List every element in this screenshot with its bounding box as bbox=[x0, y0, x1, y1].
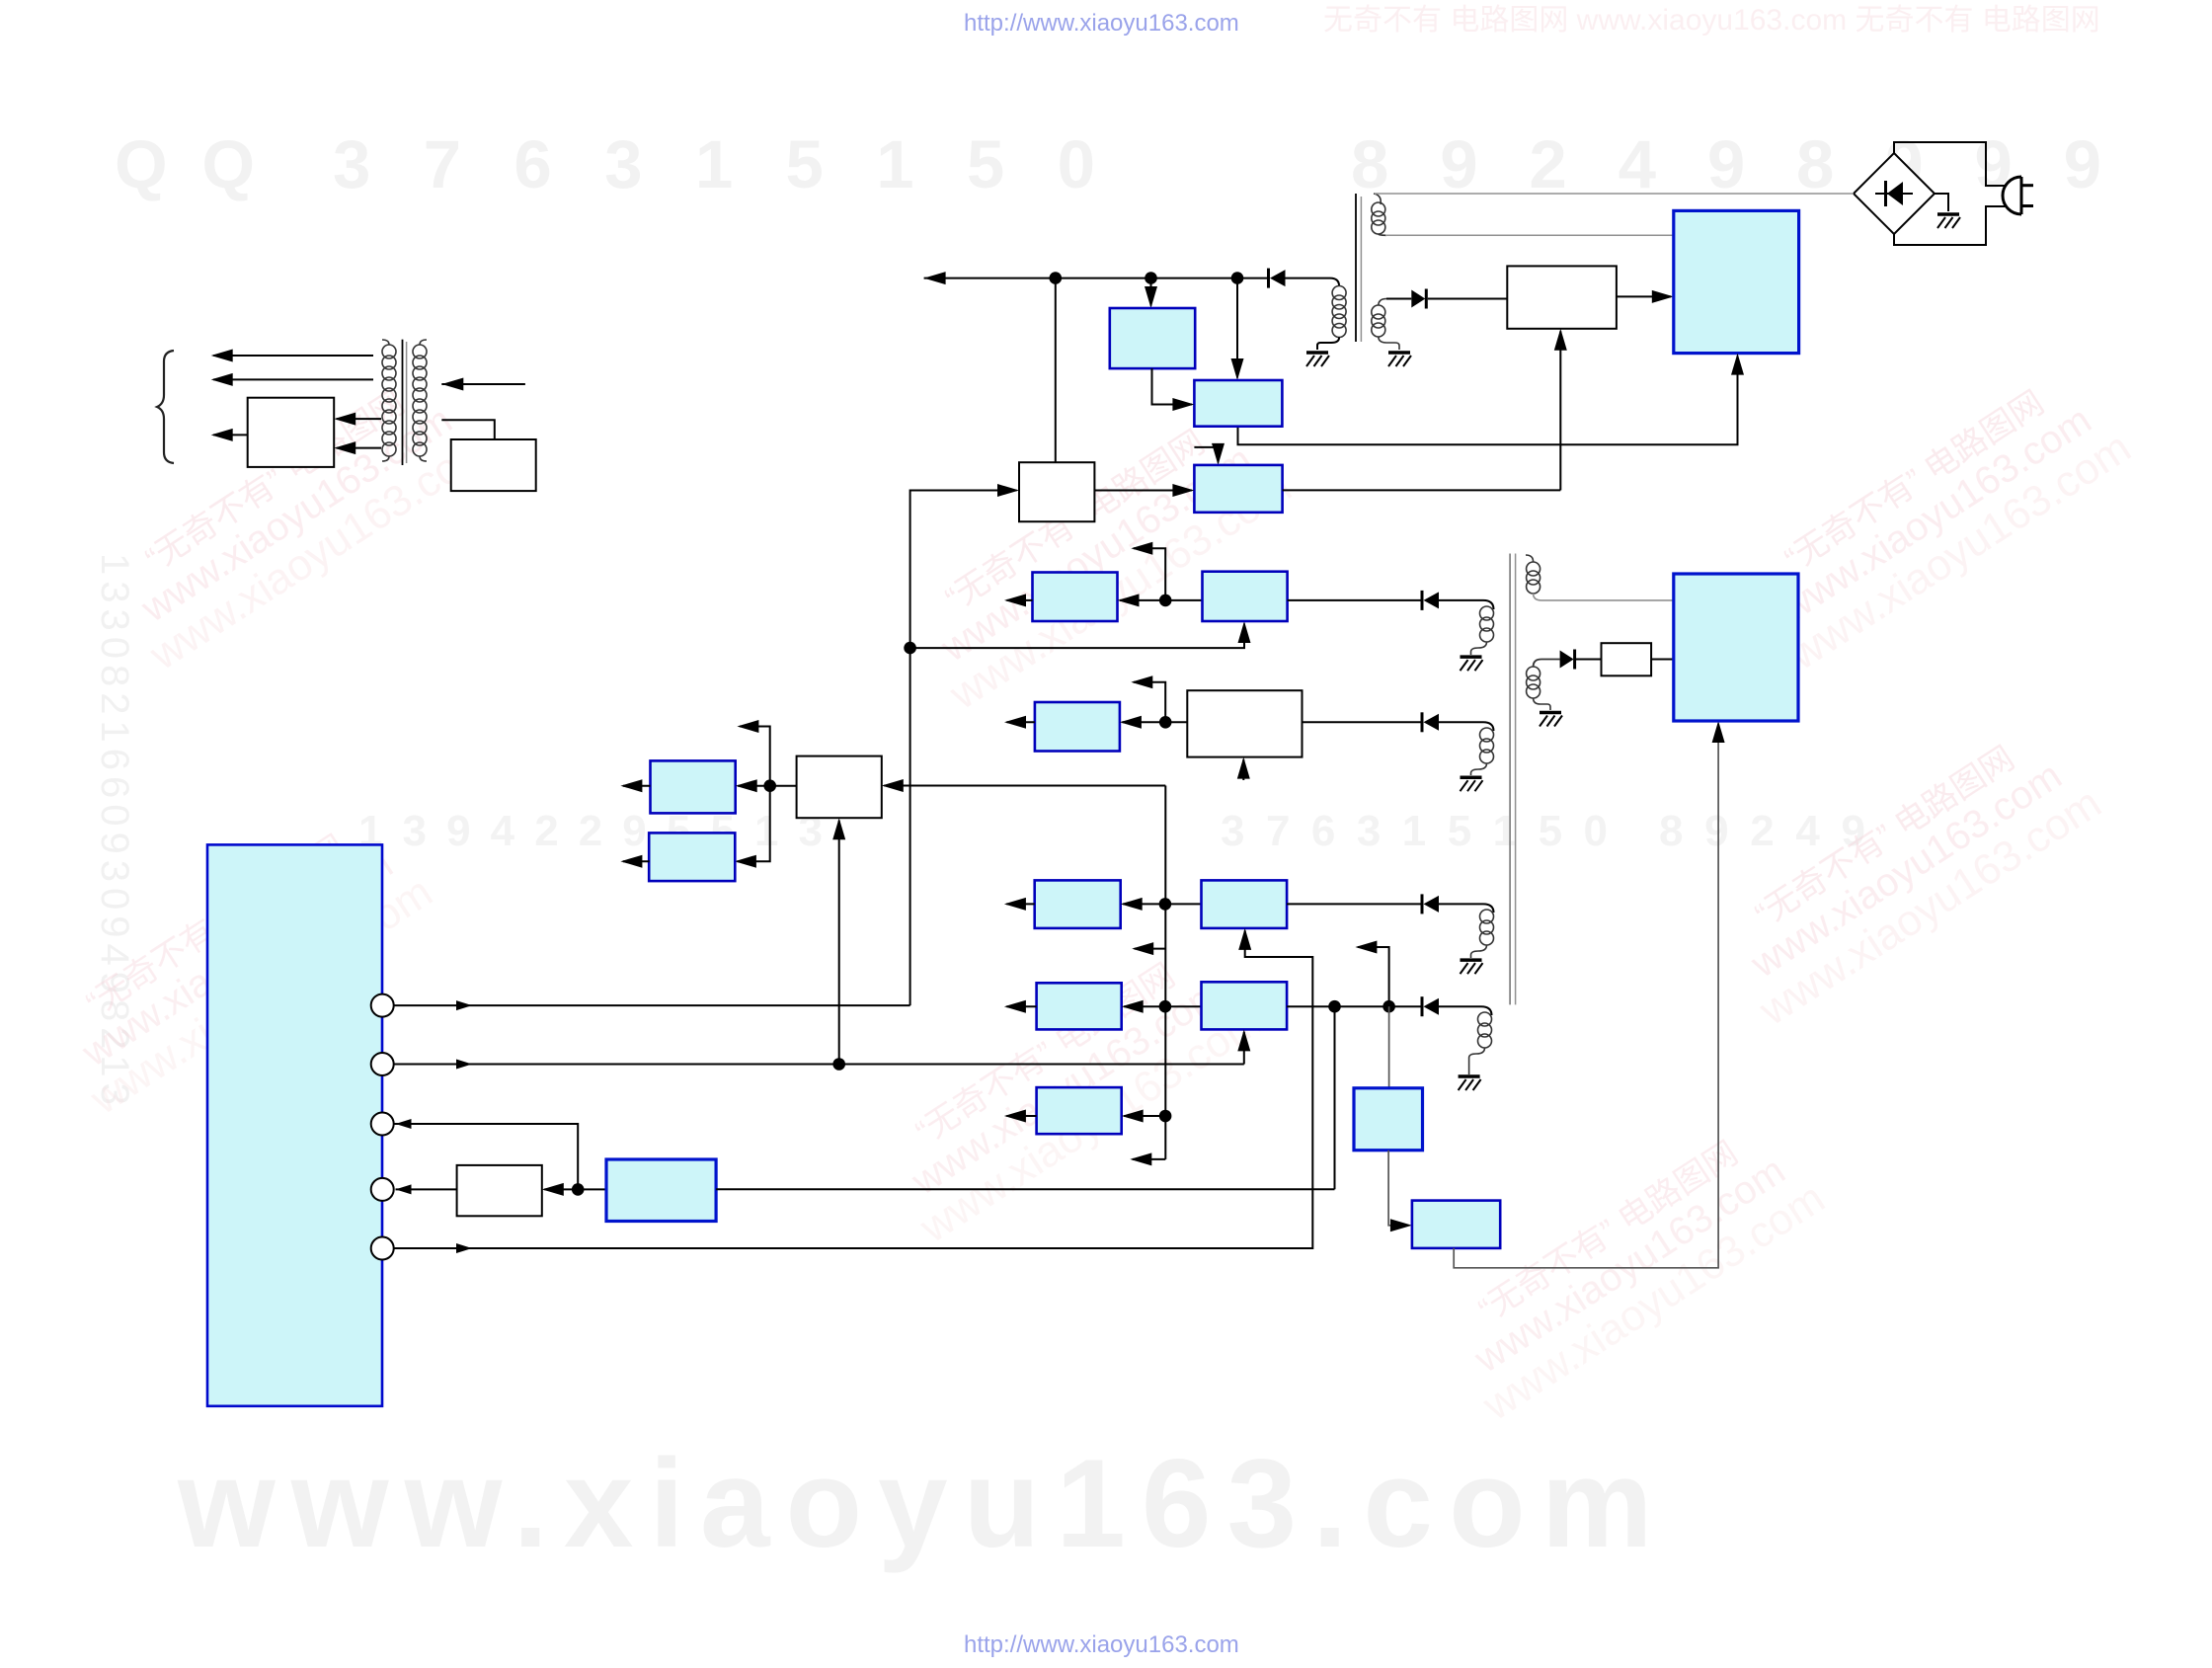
wire bridge top loop to plug bbox=[1894, 142, 2007, 186]
pin 3 circle bbox=[371, 1113, 394, 1136]
node junction row A bbox=[1159, 595, 1172, 607]
block box1 (cyan) bbox=[1110, 308, 1195, 368]
svg-text:无奇不有 电路图网 www.xiaoyu163.com 无: 无奇不有 电路图网 www.xiaoyu163.com 无奇不有 电路图网 bbox=[1323, 4, 2100, 37]
transformer T0 right winding bbox=[413, 345, 427, 456]
wire bus top to WB2 bbox=[884, 785, 1165, 787]
arrow out D1 left bbox=[1006, 1005, 1036, 1007]
diode D7 output bbox=[1560, 651, 1574, 669]
block WB1 (white) bbox=[1019, 462, 1094, 521]
arrow out WB0 left bbox=[213, 434, 248, 436]
ground bridge bbox=[1937, 214, 1960, 228]
wire box3 top feeder bbox=[1194, 447, 1218, 463]
arrow into pin3 bbox=[396, 1119, 412, 1129]
bridge rectifier BR1 diamond bbox=[1854, 153, 1935, 234]
wire T2 winding A to ground bbox=[1471, 642, 1487, 655]
wire rail diode to T1 primary bbox=[1286, 278, 1340, 286]
diode D1 on rail bbox=[1270, 270, 1286, 286]
ground T2 right bbox=[1540, 713, 1562, 727]
arrow into WB2 bottom bbox=[832, 818, 845, 839]
arrow into A2 bottom bbox=[1238, 621, 1251, 643]
bridge rectifier BR1 internal diode bbox=[1875, 181, 1913, 206]
wire T1 sec-bot top hook bbox=[1379, 299, 1386, 306]
block D2 (cyan) bbox=[1202, 982, 1288, 1029]
node junction D-branch bbox=[1382, 1000, 1395, 1013]
wire T0 to WB0 lower bbox=[337, 447, 381, 449]
wire pin2 riser to WB2 bbox=[838, 821, 840, 1065]
block B2 (white) bbox=[1187, 690, 1302, 756]
wire T1 sec-bot to diode D2 bbox=[1386, 298, 1411, 300]
transformer T1 secondary bottom winding bbox=[1372, 305, 1385, 337]
node junction pin3-pin4 bbox=[572, 1183, 585, 1196]
pin 2 circle bbox=[371, 1053, 394, 1075]
svg-text:376315150: 376315150 bbox=[1221, 807, 1608, 855]
wire A2 right to diode bbox=[1288, 599, 1422, 601]
wire rail drop to WB1 bbox=[1055, 278, 1057, 463]
node rail junction 1 bbox=[1050, 272, 1063, 284]
svg-text:www.xiaoyu163.com: www.xiaoyu163.com bbox=[177, 1433, 1669, 1573]
wire pin3 bbox=[394, 1124, 578, 1189]
wire D junction to D1 bbox=[1124, 1005, 1165, 1007]
arrow into box2 left bbox=[1172, 398, 1194, 411]
transformer T1 primary winding bbox=[1332, 286, 1346, 338]
block IC2 (cyan big, right) bbox=[1674, 574, 1798, 721]
arrow into WB2 right bbox=[882, 779, 904, 792]
arrow into T0 right bbox=[441, 378, 463, 391]
wire box3 right to U2 drop bbox=[1283, 489, 1561, 491]
arrow out B1 left bbox=[1007, 721, 1035, 723]
arrow out A1 left bbox=[1007, 599, 1033, 601]
wire A branch up-left arrow bbox=[1134, 548, 1165, 600]
diode D6 row D bbox=[1424, 998, 1440, 1015]
wire T2 winding D to ground bbox=[1469, 1048, 1485, 1074]
block F2 (cyan) bbox=[606, 1159, 716, 1222]
wire box1 bottom to box2 left bbox=[1152, 368, 1193, 404]
wire D5 to T2 winding C bbox=[1439, 904, 1494, 913]
pin 5 circle bbox=[371, 1237, 394, 1260]
arrow into box2 top bbox=[1231, 358, 1244, 380]
brace left outputs bbox=[157, 351, 174, 463]
arrow into box1 top bbox=[1145, 286, 1157, 308]
wire box2 bottom feed rail bbox=[1238, 356, 1738, 444]
arrow into D2 bottom bbox=[1237, 1029, 1250, 1051]
node junction riser bbox=[904, 642, 916, 655]
arrow into box3 top bbox=[1212, 443, 1224, 465]
ground T1 primary bbox=[1306, 353, 1329, 366]
wire A junction to A1 bbox=[1120, 599, 1165, 601]
arrow into IC2 bottom bbox=[1712, 721, 1725, 743]
wire C junction to C2 bbox=[1165, 903, 1202, 905]
wire C branch left arrow bbox=[1135, 948, 1165, 950]
wire T2 right-2 hook to diode bbox=[1534, 660, 1560, 668]
wire riser pin1 to WB1 bbox=[910, 491, 1017, 1006]
transformer T1 core bbox=[1355, 194, 1357, 342]
arrow into U2 bottom bbox=[1554, 329, 1567, 351]
arrow into WB0 lower bbox=[334, 441, 355, 454]
arrow into W3 right bbox=[542, 1183, 564, 1196]
block R1 (white small) bbox=[1602, 643, 1652, 675]
wire main rail bbox=[924, 278, 1269, 279]
block MCU (big cyan) bbox=[207, 844, 382, 1405]
wire D branch up-left arrow bbox=[1358, 947, 1389, 1006]
wire WB1 to box3 bbox=[1094, 490, 1192, 492]
node junction row D bbox=[1159, 1000, 1172, 1013]
block E1 (cyan) bbox=[1037, 1087, 1122, 1134]
wire A junction to A2 bbox=[1165, 599, 1202, 601]
arrow output 2 bbox=[213, 378, 373, 380]
wire M junction to M1 bbox=[738, 785, 770, 787]
block C2 (cyan) bbox=[1202, 880, 1288, 928]
transformer T0 right winding hooks bbox=[420, 340, 427, 345]
wire T1 sec-top hook bbox=[1374, 194, 1381, 204]
arrow into M1 right bbox=[736, 779, 757, 792]
wire F2 right input bbox=[716, 1188, 1334, 1190]
svg-text:http://www.xiaoyu163.com: http://www.xiaoyu163.com bbox=[964, 10, 1239, 37]
transformer T0 left winding bbox=[382, 345, 396, 456]
pin 1 circle bbox=[371, 994, 394, 1017]
ground T2 winding C bbox=[1461, 960, 1483, 974]
arrow out C1 left bbox=[1006, 903, 1034, 905]
wire R1 to IC2 bbox=[1651, 659, 1674, 661]
wire D2 right to diode bbox=[1287, 1005, 1422, 1007]
arrow into A1 right bbox=[1118, 594, 1140, 606]
block IC1 (cyan big, top right) bbox=[1674, 210, 1799, 353]
block B1 (cyan) bbox=[1035, 702, 1120, 752]
arrow out M1 left bbox=[623, 785, 651, 787]
ground T2 winding D bbox=[1459, 1076, 1481, 1090]
block WB2 (white) bbox=[797, 756, 882, 819]
svg-text:376315150: 376315150 bbox=[333, 126, 1095, 202]
wire T1 sec-top to bridge bbox=[1375, 193, 1854, 195]
wire D junction to D2 bbox=[1165, 1005, 1202, 1007]
wire pin1 bbox=[394, 1004, 910, 1006]
wire W3 to pin4 bbox=[396, 1188, 457, 1190]
arrow out E1 left bbox=[1006, 1115, 1036, 1117]
wire bridge to ground bbox=[1935, 194, 1948, 211]
wire pin2 bbox=[394, 1064, 1244, 1066]
block M1 (cyan) bbox=[651, 760, 736, 813]
wire T1 primary to ground bbox=[1317, 338, 1339, 351]
arrow into C2 bottom bbox=[1238, 928, 1251, 950]
wire pin2 to D2 bottom bbox=[1243, 1032, 1245, 1065]
wire junction to W3 right bbox=[544, 1188, 578, 1190]
block F (cyan) bbox=[1354, 1088, 1423, 1151]
arrow into E1 right bbox=[1122, 1110, 1144, 1123]
wire B branch up-left arrow bbox=[1134, 682, 1165, 723]
arrow into IC1 left bbox=[1652, 290, 1674, 303]
wire D2 to regulator box bbox=[1428, 298, 1508, 300]
wire B junction to B1 bbox=[1122, 721, 1165, 723]
node junction row C bbox=[1159, 898, 1172, 911]
decorative watermark pink 1 bbox=[98, 357, 500, 679]
wire U2 bottom feed bbox=[1559, 331, 1561, 490]
wire dot1 to F2 line bbox=[1334, 1006, 1336, 1189]
transformer T1 secondary top winding bbox=[1372, 202, 1385, 234]
wire D-branch down to F bbox=[1388, 1006, 1390, 1088]
ground T2 winding A bbox=[1461, 657, 1483, 671]
block WB4 (white) bbox=[451, 439, 536, 491]
wire T2 right-top hook top bbox=[1526, 555, 1534, 562]
wire G bottom to IC2 bottom bbox=[1454, 724, 1718, 1268]
wire vertical bus x1180 bbox=[1164, 786, 1166, 1159]
transformer T2 right top winding bbox=[1527, 562, 1540, 594]
arrow out M2 left bbox=[623, 860, 650, 862]
arrow into B2 bottom bbox=[1237, 757, 1250, 779]
arrow into G left bbox=[1390, 1219, 1412, 1231]
wire T0 to WB0 upper bbox=[337, 418, 381, 420]
decorative watermark pink 5 bbox=[868, 930, 1270, 1252]
node rail junction 2 bbox=[1145, 272, 1157, 284]
block M2 (cyan) bbox=[649, 833, 735, 881]
wire T2 right-top to IC2 bbox=[1534, 594, 1674, 600]
node junction row E bbox=[1159, 1110, 1172, 1123]
wire C2 right to diode bbox=[1287, 903, 1422, 905]
decorative watermark pink top bbox=[1323, 4, 2100, 37]
transformer T2 winding D bbox=[1478, 1012, 1492, 1048]
block W3 (white) bbox=[457, 1165, 542, 1216]
wire T2 winding B to ground bbox=[1471, 763, 1487, 775]
transformer T2 core bbox=[1509, 554, 1511, 1005]
arrow on pin5 wire bbox=[456, 1243, 472, 1253]
node junction row B bbox=[1159, 716, 1172, 729]
wire M branch up-left arrow bbox=[740, 727, 770, 786]
wire B2 right to diode bbox=[1303, 721, 1423, 723]
transformer T2 winding A bbox=[1480, 606, 1494, 642]
block box2 (cyan) bbox=[1194, 380, 1282, 427]
block box3 (cyan) bbox=[1194, 465, 1282, 513]
wire C junction to C1 bbox=[1123, 903, 1165, 905]
ground T2 winding B bbox=[1461, 777, 1483, 791]
transformer T2 winding C bbox=[1480, 910, 1494, 945]
wire M branch down to M2 bbox=[737, 786, 769, 862]
svg-text:http://www.xiaoyu163.com: http://www.xiaoyu163.com bbox=[964, 1631, 1239, 1658]
diode D5 row C bbox=[1424, 896, 1440, 913]
wire D6 to T2 winding D bbox=[1439, 1006, 1492, 1015]
arrow into WB1 left bbox=[997, 484, 1019, 497]
arrow into D1 right bbox=[1122, 1000, 1144, 1013]
wire B2 bottom stub bbox=[1242, 759, 1244, 780]
diode D3 row A bbox=[1424, 592, 1440, 608]
wire F to G bbox=[1388, 1151, 1407, 1226]
arrow into IC1 bottom bbox=[1731, 354, 1744, 375]
AC plug P1 bbox=[2003, 177, 2033, 214]
block A1 (cyan) bbox=[1033, 573, 1118, 622]
wire pin5 bbox=[394, 930, 1312, 1248]
wire E junction to E1 bbox=[1124, 1115, 1165, 1117]
wire D3 to T2 winding A bbox=[1439, 600, 1494, 609]
wire junction to A2 bottom bbox=[910, 624, 1244, 649]
decorative watermark pink 3 bbox=[1737, 357, 2139, 679]
block G (cyan) bbox=[1412, 1201, 1500, 1248]
block U2 regulator (white) bbox=[1507, 266, 1617, 328]
wire E bottom left arrow bbox=[1133, 1158, 1166, 1160]
arrow into pin4 bbox=[396, 1184, 412, 1194]
transformer T2 winding B bbox=[1480, 728, 1494, 763]
wire rail drop to box2 bbox=[1236, 278, 1238, 378]
node junction row M bbox=[763, 779, 776, 792]
wire D7 to R1 bbox=[1575, 659, 1601, 661]
wire bridge bottom loop to plug bbox=[1894, 206, 2007, 245]
wire T1 sec-top bottom hook bbox=[1379, 234, 1386, 235]
node junction pin2-WB2 bbox=[832, 1058, 845, 1071]
wire junction to F2 bbox=[578, 1188, 606, 1190]
wire T0 tap to WB4 bbox=[441, 420, 495, 439]
wire T1 to IC1 block bbox=[1385, 234, 1674, 236]
svg-text:QQ: QQ bbox=[115, 126, 255, 202]
block A2 (cyan) bbox=[1203, 572, 1288, 621]
decorative watermark pink 2 bbox=[898, 397, 1300, 719]
node junction D-F bbox=[1328, 1000, 1341, 1013]
svg-text:13942295513: 13942295513 bbox=[358, 807, 823, 855]
transformer T2 right second winding bbox=[1527, 667, 1540, 698]
decorative watermark pink 7 bbox=[1431, 1108, 1833, 1430]
transformer T0 core bbox=[402, 340, 404, 465]
wire rail drop to box1 bbox=[1150, 278, 1152, 306]
arrow on pin1 wire bbox=[456, 1000, 472, 1010]
arrow into box3 left bbox=[1172, 484, 1194, 497]
wire T1 sec-bot bottom hook bbox=[1379, 337, 1399, 350]
diode D4 row B bbox=[1424, 714, 1440, 731]
wire input to T0 bbox=[441, 383, 525, 385]
block C1 (cyan) bbox=[1035, 880, 1121, 928]
pin 4 circle bbox=[371, 1178, 394, 1201]
arrow into C1 right bbox=[1121, 898, 1143, 911]
arrow output 1 bbox=[213, 355, 373, 357]
decorative watermark pink 4 bbox=[39, 802, 440, 1124]
transformer T0 left winding hooks bbox=[382, 340, 389, 345]
ground T1 secondary bbox=[1388, 353, 1411, 366]
arrow rail left end bbox=[924, 272, 946, 284]
wire T2 winding C to ground bbox=[1471, 945, 1487, 958]
block D1 (cyan) bbox=[1037, 983, 1122, 1029]
wire T2 right-2 to ground bbox=[1534, 698, 1550, 710]
arrow on pin2 wire bbox=[456, 1060, 472, 1070]
decorative watermark pink 6 bbox=[1707, 713, 2109, 1035]
arrow into B1 right bbox=[1120, 716, 1142, 729]
arrow into WB0 upper bbox=[334, 413, 355, 426]
node rail junction 3 bbox=[1231, 272, 1244, 284]
block WB0 (white) bbox=[248, 398, 335, 467]
wire B junction to B2 bbox=[1165, 721, 1187, 723]
wire M junction to WB2 bbox=[770, 785, 797, 787]
wire D4 to T2 winding B bbox=[1439, 722, 1494, 731]
svg-text:892498999: 892498999 bbox=[1351, 126, 2101, 202]
wire U2 to IC1 bbox=[1617, 295, 1671, 297]
diode D2 bbox=[1411, 290, 1425, 308]
